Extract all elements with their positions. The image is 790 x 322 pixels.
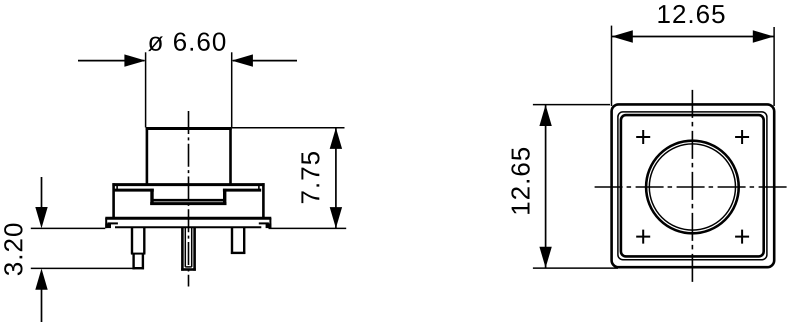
arrowhead 12.65 left up (539, 105, 551, 126)
right pin bottom (231, 252, 245, 254)
top view middle square (618, 112, 767, 260)
left pin tip right edge (142, 254, 144, 270)
extension line 12.65 left bottom (533, 267, 618, 269)
arrowhead ø 6.60 left (124, 54, 145, 66)
arrowhead 3.20 down (35, 207, 47, 228)
left pin tip bottom (133, 267, 145, 269)
body tick right (258, 185, 260, 190)
body recess floor lower line (150, 202, 226, 205)
right pin left edge (231, 227, 233, 254)
extension line 12.65 top left (611, 26, 613, 106)
plunger left edge (146, 127, 149, 185)
middle pin bottom (181, 268, 196, 271)
flange bottom edge (115, 226, 261, 228)
dimension text 12.65 top (658, 5, 724, 23)
dimension line 7.75 (335, 128, 337, 229)
dimension text 12.65 left (511, 148, 529, 214)
flange step line right (259, 222, 269, 224)
left pin left edge (131, 227, 133, 254)
top view horizontal centerline (595, 186, 789, 188)
arrowhead 7.75 down (330, 207, 342, 228)
middle pin right edge (193, 227, 196, 271)
arrowhead ø 6.60 right (232, 54, 253, 66)
dimension text 3.20 (4, 224, 22, 276)
body shoulder line right (223, 189, 261, 192)
body right edge (262, 183, 265, 218)
left pin tip left edge (132, 254, 134, 270)
side view centerline (188, 111, 190, 287)
arrowhead 3.20 up (35, 269, 47, 290)
left pin step (131, 253, 146, 255)
extension line 12.65 top right (773, 27, 775, 106)
extension line 7.75 bottom (269, 227, 347, 229)
right pin right edge (243, 227, 245, 254)
middle pin inner close (185, 266, 191, 268)
body left edge (112, 183, 115, 218)
middle pin left edge (181, 227, 184, 271)
plus mark bottom right (735, 230, 749, 244)
arrowhead 12.65 left down (539, 247, 551, 268)
dimension line ø 6.60 left tail (78, 60, 145, 62)
arrowhead 12.65 top left (612, 30, 633, 42)
middle pin inner right line (191, 227, 193, 267)
arrowhead 7.75 up (330, 128, 342, 149)
dimension text 7.75 (301, 152, 319, 203)
extension line 3.20 bottom (31, 267, 134, 269)
dimension line 3.20 upper tail (41, 177, 43, 208)
body tick left (116, 185, 118, 190)
extension line ø 6.60 right (231, 52, 233, 127)
flange top edge (105, 217, 271, 220)
body collar bar right (223, 189, 226, 205)
dimension line ø 6.60 right tail (233, 60, 297, 62)
arrowhead 12.65 top right (753, 30, 774, 42)
flange step line left (108, 222, 118, 224)
plunger right edge (229, 127, 232, 185)
flange foot right (266, 223, 272, 228)
top view outer circle (646, 141, 739, 234)
flange right edge (269, 218, 271, 228)
body recess floor upper line (152, 199, 225, 202)
dimension text ø 6.60 (148, 32, 225, 51)
top view outer square (612, 104, 775, 267)
middle pin inner left line (184, 227, 186, 267)
extension line 3.20 top (31, 227, 106, 229)
flange left edge (105, 218, 107, 228)
flange foot left (105, 223, 111, 228)
body top edge (112, 183, 264, 186)
left pin right edge (143, 227, 145, 254)
top view vertical centerline (691, 90, 693, 284)
top view inner square (621, 115, 764, 256)
plus mark top right (735, 130, 749, 144)
dimension line 12.65 left (545, 105, 547, 268)
body collar bar left (150, 189, 153, 205)
plus mark bottom left (636, 230, 650, 244)
extension line ø 6.60 left (145, 52, 147, 127)
dimension line 12.65 top (612, 36, 774, 38)
top view inner circle (649, 144, 735, 230)
body shoulder line left (114, 189, 153, 192)
extension line 12.65 left top (533, 104, 610, 106)
dimension line 3.20 lower tail (41, 290, 43, 322)
plus mark top left (636, 130, 650, 144)
extension line 7.75 top (232, 127, 345, 129)
plunger top edge (146, 127, 232, 130)
